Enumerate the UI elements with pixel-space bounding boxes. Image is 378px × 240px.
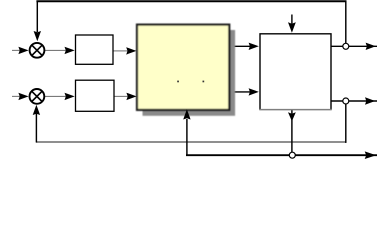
arrowhead: down into junction1	[34, 31, 41, 41]
arrowhead: output 2 right	[365, 97, 375, 104]
arrowhead: down into white box top	[288, 22, 296, 32]
arrowhead: up into yellow block bottom	[183, 109, 190, 119]
box2 (lower small block)	[76, 80, 115, 111]
arrowhead: into yellow block row1	[126, 47, 136, 54]
wire: yellow block to white box, row 1	[230, 45, 250, 47]
arrowhead: into white box row2	[249, 88, 259, 95]
node circle 1 (output 1)	[343, 43, 349, 49]
wire: bottom black output line	[186, 154, 377, 156]
wire: junction2 feedback vertical (up from gray bus)	[35, 113, 37, 143]
wire: branch up from bottom line into yellow block	[186, 119, 188, 156]
arrowhead: output 1 right	[366, 43, 376, 50]
arrowhead: up into junction2	[33, 105, 40, 115]
wire: long gray feedback bus (bottom)	[36, 141, 345, 143]
wire: junction2 to box2	[45, 95, 69, 97]
node circle 3 (bottom line)	[289, 152, 295, 158]
wire: top feedback loop right vertical (up from node1)	[345, 1, 347, 44]
arrowhead: into white box row1	[249, 43, 259, 50]
wire: yellow block to white box, row 2	[230, 91, 250, 93]
wire: top feedback loop horizontal run	[36, 0, 346, 2]
wire: white box bottom output down to node 3	[291, 110, 293, 155]
arrowhead: into yellow block row2	[126, 93, 136, 100]
node circle 2 (output 2)	[343, 98, 349, 104]
dot 2 inside yellow block	[203, 81, 205, 83]
summing junction 2	[30, 89, 45, 104]
arrowhead: input 1 into junction1	[18, 47, 28, 54]
wire: node2 down to gray bus	[345, 104, 347, 143]
wire: external input down into white box top	[291, 15, 293, 25]
summing junction 1	[30, 43, 45, 58]
white box black edges (top, left, right)	[260, 34, 331, 110]
wire: box1 to yellow block	[113, 50, 129, 52]
wire: input line 1 (left, into summing junction 1)	[12, 49, 22, 51]
wire: output line 1 (white box to right edge)	[331, 45, 377, 47]
wire: output line 2 (white box to right edge)	[331, 100, 377, 102]
shadow of yellow block	[143, 30, 236, 116]
arrowhead: bottom output right	[365, 151, 377, 159]
white box (right block)	[260, 34, 331, 110]
white box gray bottom edge	[259, 109, 331, 111]
arrowhead: down just below white box (bottom output)	[288, 112, 296, 121]
box1 (upper small block)	[76, 35, 114, 64]
plant block (yellow)	[137, 25, 229, 110]
arrowhead: into box1	[65, 47, 75, 54]
wire: box2 to yellow block	[114, 95, 129, 97]
dot 1 inside yellow block	[177, 81, 179, 83]
wire: top feedback loop left vertical (down into junction1)	[36, 1, 38, 32]
arrowhead: into box2	[65, 93, 75, 100]
arrowhead: input 2 into junction2	[18, 93, 28, 100]
wire: input line 2 (left, into summing junction 2)	[12, 95, 22, 97]
wire: junction1 to box1	[45, 49, 69, 51]
